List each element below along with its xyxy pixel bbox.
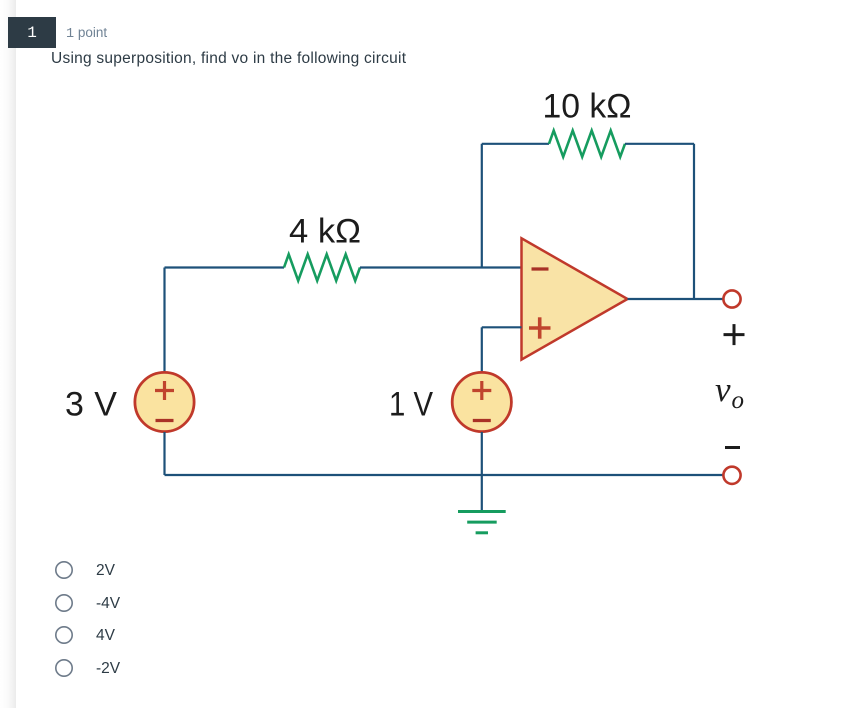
wire: op-amp output to terminal: [628, 298, 724, 300]
1V source minus mark: [473, 419, 491, 422]
question text: [51, 50, 406, 68]
question number badge 1: [8, 17, 56, 48]
wire: 1V source bottom vertical: [481, 432, 483, 475]
3V source plus mark: [155, 381, 174, 400]
svg-text:o: o: [732, 387, 745, 414]
wire: 3V source bottom vertical: [163, 432, 165, 475]
wire: 4k resistor to op-amp inverting input: [360, 266, 522, 268]
radio option -2V: [54, 658, 74, 678]
ground symbol: [458, 512, 506, 533]
label vo: [715, 370, 744, 414]
output terminal node (bottom): [723, 467, 740, 484]
1V source plus mark: [472, 381, 491, 400]
wire: left segment to 4k resistor: [165, 266, 285, 268]
points label: [66, 25, 107, 42]
svg-text:v: v: [715, 370, 731, 409]
wire: ground stem: [481, 475, 483, 512]
left page shadow strip: [0, 0, 16, 708]
voltage source 3 V: [135, 372, 194, 431]
radio option -4V: [54, 593, 74, 613]
svg-text:3 V: 3 V: [65, 386, 118, 424]
wire: non-inverting input down to 1V source: [481, 327, 483, 372]
svg-text:10 kΩ: 10 kΩ: [543, 88, 632, 126]
wire: top left segment to 10k resistor: [482, 143, 549, 145]
wire: feedback right vertical down to output node: [693, 144, 695, 299]
output polarity plus: [724, 324, 745, 345]
op-amp non-inverting input plus mark: [529, 317, 551, 338]
wire: feedback loop left vertical (inverting node up to 10k): [481, 144, 483, 268]
output terminal node (top): [723, 290, 740, 307]
svg-text:4 kΩ: 4 kΩ: [289, 213, 361, 251]
output polarity minus: [725, 446, 740, 449]
wire: op-amp non-inverting input horizontal: [482, 326, 522, 328]
voltage source 1 V: [452, 372, 511, 431]
wire: top right segment from 10k: [625, 143, 694, 145]
wire: bottom rail: [165, 474, 724, 476]
resistor 4 kOhm zigzag: [284, 254, 360, 280]
op-amp U1 triangle: [522, 238, 628, 359]
op-amp inverting input minus mark: [532, 267, 549, 270]
3V source minus mark: [156, 419, 174, 422]
wire: 3V source top vertical: [163, 268, 165, 373]
resistor 10 kOhm zigzag: [549, 131, 625, 157]
svg-text:1 V: 1 V: [389, 386, 433, 424]
radio option 2V: [54, 560, 74, 580]
radio option 4V: [54, 625, 74, 645]
